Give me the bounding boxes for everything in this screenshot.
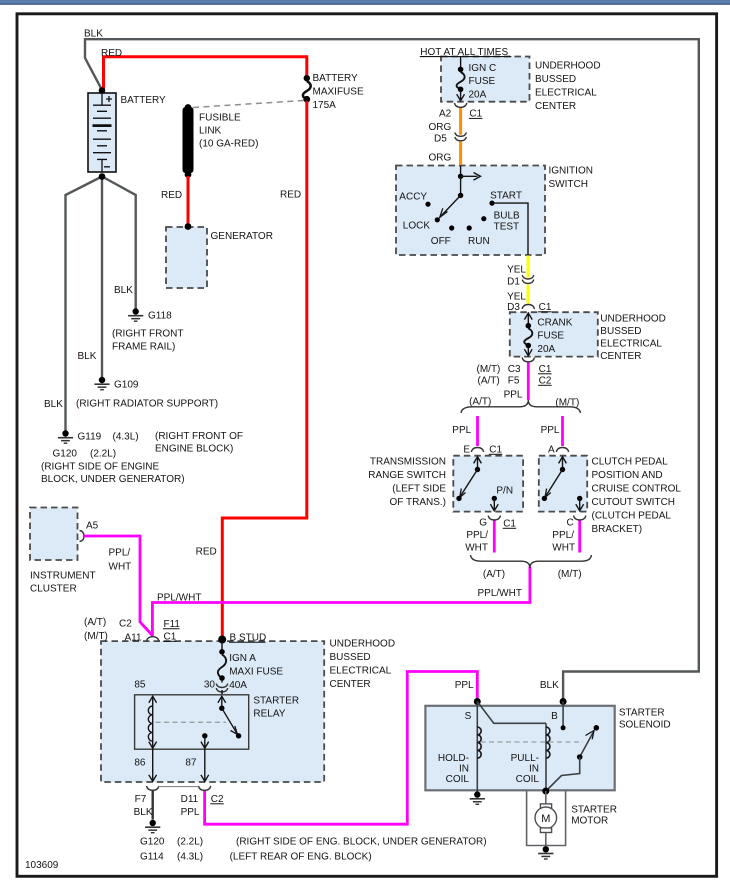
- wire RED battery to maxifuse: [104, 57, 307, 89]
- svg-text:PULL-: PULL-: [511, 753, 539, 764]
- svg-text:CRANK: CRANK: [537, 318, 572, 329]
- svg-text:BUSSED: BUSSED: [535, 74, 576, 85]
- svg-text:(4.3L): (4.3L): [177, 852, 203, 863]
- svg-text:MOTOR: MOTOR: [571, 816, 608, 827]
- pull-in coil bottom node: [542, 788, 549, 795]
- svg-text:ORG: ORG: [429, 122, 452, 133]
- hold-in coil ground: [470, 791, 485, 805]
- svg-text:POSITION AND: POSITION AND: [592, 470, 663, 481]
- svg-text:(M/T): (M/T): [477, 364, 501, 375]
- wire PPL/WHT merge to UBEC F11: [152, 567, 530, 637]
- svg-text:(RIGHT SIDE OF ENG. BLOCK, UND: (RIGHT SIDE OF ENG. BLOCK, UNDER GENERAT…: [236, 837, 487, 848]
- wire BLK battery to G119: [66, 177, 103, 431]
- svg-text:CENTER: CENTER: [600, 351, 641, 362]
- svg-text:TRANSMISSION: TRANSMISSION: [370, 457, 446, 468]
- svg-text:PPL: PPL: [541, 425, 560, 436]
- svg-text:C2: C2: [119, 619, 132, 630]
- svg-text:(4.3L): (4.3L): [113, 432, 139, 443]
- svg-text:D11: D11: [181, 794, 199, 805]
- svg-text:CUTOUT SWITCH: CUTOUT SWITCH: [592, 497, 676, 508]
- ground G109: [94, 377, 109, 391]
- starter relay K1 internals: [148, 696, 241, 748]
- wire BLK battery to G109: [101, 177, 103, 378]
- svg-text:(LEFT SIDE: (LEFT SIDE: [392, 484, 446, 495]
- svg-text:(10 GA-RED): (10 GA-RED): [199, 139, 258, 150]
- svg-text:CENTER: CENTER: [330, 679, 371, 690]
- svg-text:MAXI FUSE: MAXI FUSE: [229, 667, 283, 678]
- starter motor ground: [538, 846, 553, 860]
- svg-text:G118: G118: [148, 311, 172, 322]
- ground G118: [128, 308, 143, 322]
- svg-text:PPL/: PPL/: [109, 548, 131, 559]
- svg-text:RED: RED: [161, 190, 182, 201]
- svg-text:PPL/: PPL/: [466, 530, 488, 541]
- svg-text:BLK: BLK: [44, 399, 63, 410]
- svg-text:RELAY: RELAY: [253, 709, 285, 720]
- wire PPL/WHT from C: [578, 520, 581, 552]
- svg-text:G114: G114: [140, 852, 164, 863]
- node generator terminal: [185, 223, 192, 230]
- svg-text:BATTERY: BATTERY: [313, 73, 359, 84]
- svg-text:175A: 175A: [313, 100, 337, 111]
- svg-text:PPL/WHT: PPL/WHT: [157, 593, 201, 604]
- svg-text:SOLENOID: SOLENOID: [619, 720, 671, 731]
- svg-text:(A/T): (A/T): [469, 397, 491, 408]
- svg-text:WHT: WHT: [465, 543, 488, 554]
- svg-text:BLOCK, UNDER GENERATOR): BLOCK, UNDER GENERATOR): [41, 474, 185, 485]
- svg-text:CLUSTER: CLUSTER: [30, 584, 77, 595]
- svg-text:IGN C: IGN C: [469, 63, 497, 74]
- svg-text:UNDERHOOD: UNDERHOOD: [330, 638, 396, 649]
- svg-text:BLK: BLK: [134, 807, 153, 818]
- connector G C1 exit: [488, 516, 500, 520]
- svg-text:A2: A2: [439, 109, 452, 120]
- svg-text:LINK: LINK: [199, 126, 222, 137]
- wire PPL UBEC D11 to solenoid S: [205, 672, 478, 825]
- svg-text:IN: IN: [459, 764, 469, 775]
- svg-text:PPL: PPL: [452, 425, 471, 436]
- connector E C1 entry: [471, 448, 483, 452]
- battery BAT1: [88, 93, 116, 172]
- svg-text:ACCY: ACCY: [399, 192, 427, 203]
- connector D5 inline: [455, 132, 467, 140]
- svg-text:OFF: OFF: [431, 236, 451, 247]
- svg-text:MAXIFUSE: MAXIFUSE: [313, 87, 364, 98]
- transmission range switch box: [453, 456, 523, 512]
- wire RED maxifuse to B STUD: [222, 101, 306, 637]
- svg-text:(RIGHT RADIATOR SUPPORT): (RIGHT RADIATOR SUPPORT): [76, 399, 218, 410]
- svg-text:PPL/: PPL/: [552, 530, 574, 541]
- svg-text:E: E: [463, 445, 470, 456]
- UBEC crank fuse box: [510, 312, 598, 356]
- svg-text:(2.2L): (2.2L): [90, 449, 116, 460]
- svg-text:ELECTRICAL: ELECTRICAL: [600, 339, 662, 350]
- svg-text:(RIGHT FRONT OF: (RIGHT FRONT OF: [155, 431, 243, 442]
- svg-text:STARTER: STARTER: [619, 708, 665, 719]
- svg-text:RED: RED: [280, 190, 301, 201]
- svg-text:A: A: [548, 445, 555, 456]
- transmission range switch internals: [456, 457, 498, 511]
- wire PPL to A (M/T branch): [561, 416, 564, 446]
- svg-text:PPL: PPL: [504, 390, 523, 401]
- wire BLK UBEC F7 to G120: [151, 791, 153, 820]
- wire PPL crank fuse to split brace: [527, 362, 530, 400]
- connector D1 inline: [522, 275, 534, 283]
- svg-text:FUSE: FUSE: [537, 331, 564, 342]
- svg-text:BLK: BLK: [114, 285, 133, 296]
- IGN C fuse F1: [457, 57, 465, 101]
- wire PPL to E (A/T branch): [476, 416, 479, 446]
- svg-text:PPL: PPL: [455, 680, 474, 691]
- svg-text:WHT: WHT: [109, 562, 132, 573]
- svg-text:STARTER: STARTER: [571, 805, 617, 816]
- wire PPL/WHT instrument cluster to UBEC F11: [84, 536, 152, 636]
- svg-text:RED: RED: [196, 547, 217, 558]
- svg-text:D5: D5: [434, 134, 447, 145]
- svg-text:BLK: BLK: [78, 351, 97, 362]
- wire YEL ignition switch to crank fuse: [527, 256, 530, 304]
- svg-text:G120: G120: [140, 837, 165, 848]
- B STUD node: [218, 636, 226, 644]
- svg-text:(A/T): (A/T): [483, 569, 505, 580]
- svg-text:M: M: [541, 813, 550, 825]
- svg-text:F7: F7: [135, 794, 147, 805]
- svg-text:OF TRANS.): OF TRANS.): [390, 497, 446, 508]
- connector C1 entry crank box: [522, 305, 534, 309]
- svg-text:RED: RED: [101, 48, 122, 59]
- svg-text:PPL: PPL: [181, 807, 200, 818]
- svg-text:UNDERHOOD: UNDERHOOD: [535, 60, 601, 71]
- svg-text:30: 30: [204, 680, 216, 691]
- svg-text:C3: C3: [508, 364, 521, 375]
- svg-text:ENGINE BLOCK): ENGINE BLOCK): [155, 444, 233, 455]
- clutch pedal switch box: [539, 456, 587, 512]
- svg-text:(2.2L): (2.2L): [177, 837, 203, 848]
- instrument cluster A5 connector: [80, 531, 85, 542]
- svg-text:LOCK: LOCK: [403, 221, 431, 232]
- svg-text:(M/T): (M/T): [555, 398, 579, 409]
- connector F11 C1 entry UBEC: [147, 637, 159, 641]
- svg-text:COIL: COIL: [516, 774, 540, 785]
- svg-text:(A/T): (A/T): [84, 617, 106, 628]
- connector C1/C2 under crank box: [522, 357, 534, 361]
- wire BLK battery to solenoid B (top loop): [85, 39, 699, 700]
- svg-text:UNDERHOOD: UNDERHOOD: [600, 314, 666, 325]
- CRANK fuse F2: [524, 313, 532, 356]
- connector 30 inline: [216, 684, 228, 692]
- svg-text:S: S: [465, 711, 472, 722]
- svg-text:SWITCH: SWITCH: [549, 179, 588, 190]
- svg-text:G119: G119: [78, 432, 102, 443]
- svg-text:103609: 103609: [25, 860, 59, 871]
- svg-text:FUSIBLE: FUSIBLE: [199, 113, 241, 124]
- UBEC starter relay box: [101, 641, 324, 782]
- svg-text:B: B: [551, 711, 558, 722]
- wire 86 exit: [152, 749, 154, 781]
- svg-text:FRAME RAIL): FRAME RAIL): [112, 342, 175, 353]
- ignition switch SW1 internals: [425, 166, 528, 255]
- svg-text:(M/T): (M/T): [558, 569, 582, 580]
- svg-text:D3: D3: [507, 302, 520, 313]
- solenoid S node: [474, 698, 481, 705]
- svg-text:A5: A5: [86, 521, 99, 532]
- svg-text:(RIGHT FRONT: (RIGHT FRONT: [112, 329, 183, 340]
- battery maxifuse 175A: [304, 75, 310, 81]
- svg-text:TEST: TEST: [494, 222, 520, 233]
- svg-text:YEL: YEL: [507, 292, 526, 303]
- svg-text:START: START: [490, 191, 522, 202]
- svg-text:COIL: COIL: [446, 774, 470, 785]
- svg-text:BULB: BULB: [494, 211, 520, 222]
- UBEC ign-c fuse box: [441, 57, 530, 102]
- svg-text:STARTER: STARTER: [253, 696, 299, 707]
- wire 87 exit: [204, 749, 206, 781]
- wire ORG ign-c fuse to ignition switch: [459, 107, 462, 165]
- svg-text:(LEFT REAR OF ENG. BLOCK): (LEFT REAR OF ENG. BLOCK): [230, 852, 372, 863]
- svg-text:ORG: ORG: [429, 153, 452, 164]
- svg-text:BRACKET): BRACKET): [592, 524, 643, 535]
- browser title bar strip: [0, 0, 730, 5]
- svg-text:86: 86: [134, 758, 146, 769]
- svg-text:BLK: BLK: [540, 680, 559, 691]
- connector C exit: [574, 516, 586, 520]
- starter solenoid box: [425, 706, 614, 791]
- merge brace A/T-M/T: [470, 555, 591, 568]
- svg-text:IN: IN: [529, 764, 539, 775]
- svg-text:(RIGHT SIDE OF ENGINE: (RIGHT SIDE OF ENGINE: [41, 462, 159, 473]
- svg-text:BUSSED: BUSSED: [600, 326, 641, 337]
- svg-text:GENERATOR: GENERATOR: [211, 231, 273, 242]
- svg-text:FUSE: FUSE: [469, 76, 496, 87]
- svg-text:(CLUTCH PEDAL: (CLUTCH PEDAL: [592, 511, 672, 522]
- svg-text:INSTRUMENT: INSTRUMENT: [30, 571, 96, 582]
- wire BLK battery to G118: [102, 177, 136, 309]
- svg-text:C1: C1: [469, 109, 482, 120]
- solenoid B node: [560, 698, 567, 705]
- svg-text:A11: A11: [125, 633, 142, 644]
- connector C1 under ign-c box: [454, 103, 466, 107]
- connector C2 exits F7/D11: [147, 786, 159, 790]
- svg-text:CENTER: CENTER: [535, 101, 576, 112]
- split brace A/T-M/T: [461, 400, 581, 413]
- svg-text:20A: 20A: [537, 344, 555, 355]
- wire RED fusible link to generator: [187, 176, 190, 226]
- wire PPL/WHT from G: [493, 520, 496, 552]
- svg-text:G109: G109: [114, 380, 139, 391]
- svg-text:F5: F5: [508, 376, 520, 387]
- IGN A maxi fuse F3: [218, 643, 226, 683]
- svg-text:BLK: BLK: [84, 29, 103, 40]
- svg-text:CRUISE CONTROL: CRUISE CONTROL: [592, 484, 682, 495]
- svg-text:(A/T): (A/T): [478, 376, 500, 387]
- svg-text:D1: D1: [507, 277, 520, 288]
- svg-text:BUSSED: BUSSED: [330, 652, 371, 663]
- svg-text:40A: 40A: [229, 680, 247, 691]
- starter motor M1: [527, 791, 566, 846]
- starter relay inner box: [135, 695, 249, 749]
- ground G119: [58, 430, 73, 444]
- starter solenoid internals: [477, 702, 599, 792]
- svg-text:ELECTRICAL: ELECTRICAL: [330, 665, 392, 676]
- svg-text:85: 85: [134, 680, 146, 691]
- generator box: [166, 227, 207, 288]
- svg-text:ELECTRICAL: ELECTRICAL: [535, 87, 597, 98]
- svg-text:CLUTCH PEDAL: CLUTCH PEDAL: [592, 457, 669, 468]
- svg-text:IGNITION: IGNITION: [549, 166, 593, 177]
- svg-text:G: G: [479, 518, 487, 529]
- svg-text:IGN A: IGN A: [229, 653, 256, 664]
- svg-text:G120: G120: [53, 449, 78, 460]
- connector A entry: [556, 448, 568, 452]
- instrument cluster box: [30, 508, 78, 561]
- clutch switch internals: [542, 457, 584, 511]
- svg-text:BATTERY: BATTERY: [121, 95, 167, 106]
- svg-text:(M/T): (M/T): [84, 631, 108, 642]
- svg-text:YEL: YEL: [507, 265, 526, 276]
- svg-text:RUN: RUN: [468, 236, 490, 247]
- dashed tap line to maxifuse: [193, 101, 304, 108]
- svg-text:PPL/WHT: PPL/WHT: [478, 588, 522, 599]
- svg-text:87: 87: [185, 758, 197, 769]
- svg-text:P/N: P/N: [496, 486, 513, 497]
- svg-text:20A: 20A: [469, 90, 487, 101]
- svg-text:HOLD-: HOLD-: [438, 753, 469, 764]
- svg-text:RANGE SWITCH: RANGE SWITCH: [368, 470, 446, 481]
- fusible link: [183, 107, 194, 173]
- ignition switch box: [396, 166, 545, 256]
- svg-text:C: C: [567, 518, 574, 529]
- ground G120/G114: [145, 820, 160, 834]
- svg-text:WHT: WHT: [552, 543, 575, 554]
